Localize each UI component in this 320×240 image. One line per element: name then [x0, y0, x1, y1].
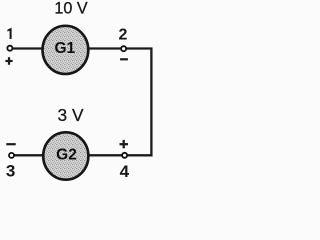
- svg-text:4: 4: [120, 162, 130, 181]
- generator G2: [43, 132, 88, 179]
- svg-text:G2: G2: [56, 147, 77, 164]
- terminal 2: [121, 46, 126, 51]
- polarity + at terminal 4: [120, 140, 129, 148]
- wire G1 to terminal 2 to top-right corner: [88, 47, 153, 49]
- wire bottom-right corner to terminal 4 to G2: [89, 154, 153, 156]
- terminal 4: [122, 153, 127, 158]
- polarity - at terminal 3: [6, 143, 15, 145]
- svg-text:3 V: 3 V: [58, 105, 84, 125]
- terminal 1: [7, 46, 12, 51]
- wire right vertical segment: [150, 48, 152, 157]
- wire terminal 1 to G1: [13, 47, 44, 49]
- generator G1: [43, 26, 89, 74]
- polarity - at terminal 2: [120, 58, 128, 60]
- wire terminal 3 to G2: [14, 154, 44, 156]
- polarity + at terminal 1: [5, 57, 12, 65]
- svg-text:2: 2: [119, 27, 128, 44]
- svg-text:G1: G1: [54, 40, 75, 57]
- terminal 3: [9, 153, 14, 158]
- pin number 1: [7, 28, 11, 39]
- svg-text:3: 3: [6, 162, 15, 181]
- svg-text:10 V: 10 V: [54, 0, 87, 18]
